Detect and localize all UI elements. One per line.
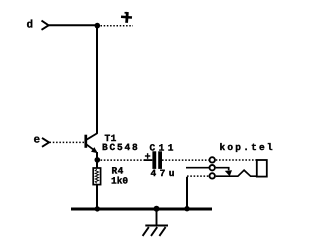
wire C11 to jack tip <box>162 159 209 161</box>
ground bus <box>71 208 212 211</box>
wire R4 top <box>96 161 98 168</box>
svg-text:C11: C11 <box>150 142 177 153</box>
transistor T1 base bar <box>84 135 87 148</box>
capacitor C11 plate right <box>158 151 162 169</box>
switch contact line <box>186 167 209 169</box>
switch arm arrowhead <box>225 170 232 176</box>
wire R4 bottom <box>96 185 98 208</box>
svg-text:kop.tel: kop.tel <box>220 142 275 153</box>
chassis ground hatch 1 <box>143 227 149 236</box>
jack terminal 3 <box>210 173 215 178</box>
input arrow d <box>42 21 49 30</box>
capacitor polarity plus <box>145 153 150 159</box>
jack terminal 2 <box>210 165 215 170</box>
junction bus chassis <box>154 206 160 212</box>
wire dotted to plus <box>101 25 134 27</box>
chassis ground bar <box>145 225 168 227</box>
plug body <box>257 160 267 177</box>
chassis ground stem <box>156 209 158 225</box>
wire d to rail <box>49 24 97 26</box>
capacitor C11 plate left <box>152 151 156 169</box>
resistor R4 body <box>93 168 100 185</box>
wire base dotted <box>50 141 85 143</box>
wire jack ground down <box>186 177 188 208</box>
sleeve line from ground <box>187 175 209 177</box>
chassis ground hatch 2 <box>151 227 157 236</box>
sleeve spring with bump <box>216 170 257 176</box>
input arrow e <box>42 138 49 147</box>
junction top <box>95 23 101 29</box>
plus supply symbol <box>121 12 133 24</box>
transistor T1 emitter stroke <box>86 144 96 152</box>
junction emitter node <box>95 157 101 163</box>
svg-text:e: e <box>34 135 41 147</box>
svg-text:d: d <box>27 19 34 31</box>
svg-text:47u: 47u <box>151 168 178 179</box>
transistor T1 collector stroke <box>86 133 97 140</box>
wire emitter to C11 <box>101 159 146 161</box>
svg-text:1k0: 1k0 <box>111 175 128 186</box>
wire emitter down <box>96 152 98 158</box>
wire tip to plug <box>216 159 257 161</box>
svg-text:BC548: BC548 <box>102 142 140 153</box>
transistor T1 emitter arrowhead <box>91 147 98 153</box>
junction bus jack <box>184 206 189 211</box>
chassis ground hatch 3 <box>159 227 165 236</box>
jack terminal 1 <box>210 157 215 162</box>
switch arm <box>216 168 229 171</box>
junction bus R4 <box>95 206 100 211</box>
wire collector rail <box>96 26 98 134</box>
